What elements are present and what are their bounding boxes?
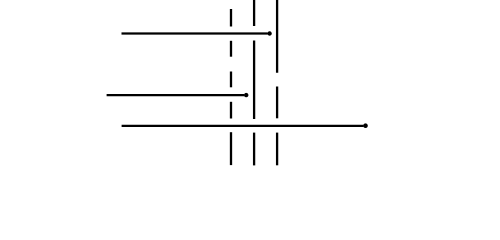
dashed vertical line V1: dash 4 [230,102,232,119]
vertical line V2: top segment [253,0,255,26]
dashed vertical line V1: dash 2 [230,41,232,57]
vertical line V2: bottom segment [253,133,255,166]
vertical line V3: bottom segment [276,133,278,166]
dashed vertical line V1: dash 3 [230,72,232,88]
endpoint dot of H2 [244,93,248,97]
endpoint dot of H1 [267,31,271,35]
horizontal segment H3 [122,125,364,127]
dashed vertical line V1: dash 1 [230,9,232,27]
endpoint dot of H3 [363,123,368,128]
vertical line V1: solid bottom segment [230,132,232,165]
vertical line V2: middle segment [253,41,255,120]
horizontal segment H2 [107,94,245,96]
horizontal segment H1 [122,32,268,34]
vertical line V3: middle segment [276,87,278,119]
vertical line V3: top segment [276,0,278,73]
